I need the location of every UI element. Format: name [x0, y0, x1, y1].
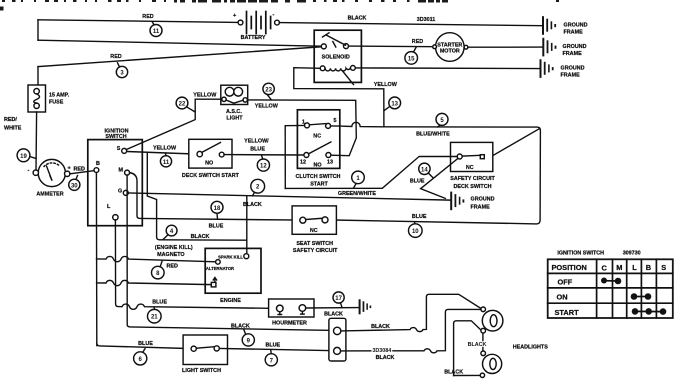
svg-text:NO: NO — [313, 163, 321, 169]
svg-text:RED: RED — [110, 54, 121, 60]
wire RED 3 (fuse to solenoid) — [38, 47, 321, 86]
svg-text:HOURMETER: HOURMETER — [272, 321, 307, 327]
svg-text:A.S.C.: A.S.C. — [226, 109, 242, 115]
svg-text:BLUE: BLUE — [152, 300, 167, 306]
svg-text:11: 11 — [153, 29, 160, 35]
svg-text:ENGINE: ENGINE — [220, 298, 241, 304]
svg-text:BLUE: BLUE — [209, 224, 224, 230]
svg-text:BLUE: BLUE — [412, 214, 427, 220]
ignition switch table — [548, 250, 673, 318]
svg-text:YELLOW/: YELLOW/ — [244, 139, 269, 145]
svg-text:-: - — [273, 12, 275, 18]
wire BLUE 6 to light switch — [97, 341, 191, 349]
svg-text:S: S — [117, 146, 121, 152]
ground frame (battery) — [542, 16, 588, 35]
clutch terminal 13 — [326, 153, 333, 166]
circled 15 — [405, 48, 418, 65]
wire light switch to connector, BLUE 7 — [219, 342, 333, 350]
svg-text:WHITE: WHITE — [4, 126, 22, 132]
svg-text:RED: RED — [412, 39, 423, 45]
ground frame (safety circuit) — [450, 192, 494, 211]
svg-text:BLACK: BLACK — [348, 16, 367, 22]
svg-text:15 AMP.: 15 AMP. — [49, 93, 70, 99]
svg-text:17: 17 — [335, 296, 342, 302]
svg-text:M: M — [616, 263, 622, 272]
wire starter to ground frame — [468, 46, 542, 48]
wire ignition M branch to seat switch — [130, 173, 300, 221]
deck switch (NO) — [182, 139, 240, 179]
light switch — [182, 335, 227, 374]
svg-text:BLACK: BLACK — [376, 355, 395, 361]
svg-text:SEAT SWITCH: SEAT SWITCH — [296, 241, 333, 247]
svg-text:YELLOW: YELLOW — [153, 146, 177, 152]
svg-text:BLACK: BLACK — [468, 342, 487, 348]
svg-text:GROUND: GROUND — [563, 44, 587, 50]
svg-text:SAFETY CIRCUIT: SAFETY CIRCUIT — [293, 248, 338, 254]
wire solenoid coil to clutch junction, YELLOW 13 — [294, 68, 398, 127]
wire solenoid coil to ground frame — [355, 67, 539, 70]
circled 23 — [263, 83, 274, 100]
wire fuse to ammeter — [35, 112, 38, 170]
svg-text:SWITCH: SWITCH — [105, 134, 126, 140]
circled 4 — [163, 225, 177, 239]
wire alternator RED 8 — [97, 256, 216, 269]
node: junction riser x=285 (deck/clutch1/green-white) — [284, 126, 286, 189]
svg-text:FRAME: FRAME — [561, 73, 581, 79]
svg-text:NO: NO — [205, 161, 213, 167]
svg-text:BLUE/WHITE: BLUE/WHITE — [416, 132, 450, 138]
svg-text:NC: NC — [313, 133, 321, 139]
svg-text:BLACK: BLACK — [231, 323, 250, 329]
svg-text:RED/: RED/ — [4, 117, 17, 123]
svg-text:NC: NC — [310, 228, 318, 234]
svg-text:SPARK KILL: SPARK KILL — [218, 255, 243, 260]
svg-text:13: 13 — [327, 160, 333, 166]
label HEADLIGHTS — [513, 344, 548, 350]
svg-text:309730: 309730 — [623, 251, 641, 257]
circled 14 — [419, 163, 433, 178]
ignition terminal L — [107, 204, 118, 220]
svg-text:B: B — [96, 161, 100, 167]
headlight lamp upper — [481, 307, 503, 333]
wire BLUE 14 to ground — [410, 158, 458, 198]
svg-text:G: G — [118, 189, 122, 195]
svg-text:15: 15 — [408, 56, 415, 62]
svg-text:FRAME: FRAME — [563, 51, 583, 57]
svg-text:ALTERNATOR: ALTERNATOR — [206, 266, 234, 271]
wire GREEN/WHITE 1 — [285, 156, 457, 197]
wire: battery positive feed (top loop) — [38, 20, 238, 40]
svg-text:GROUND: GROUND — [564, 23, 588, 29]
svg-text:YELLOW: YELLOW — [374, 82, 398, 88]
clutch blades — [309, 124, 331, 154]
svg-text:BLACK: BLACK — [324, 312, 343, 318]
svg-text:BATTERY: BATTERY — [241, 35, 266, 41]
ignition terminal S — [117, 146, 127, 153]
svg-text:21: 21 — [151, 315, 158, 321]
svg-text:3D3084: 3D3084 — [372, 348, 391, 354]
svg-text:LIGHT: LIGHT — [226, 115, 243, 121]
wire ASC to clutch 13 (via vertical) — [247, 100, 356, 156]
clutch switch box — [296, 110, 341, 188]
svg-text:11: 11 — [163, 160, 170, 166]
svg-text:START: START — [555, 308, 580, 317]
svg-text:L: L — [632, 263, 637, 272]
svg-text:GREEN/WHITE: GREEN/WHITE — [338, 191, 376, 197]
wire between lamps, BLACK — [444, 333, 486, 376]
wire S to deck switch, YELLOW 11 — [127, 146, 197, 155]
ASC light — [221, 85, 248, 121]
wire G drop to spark kill — [246, 197, 248, 254]
wire S to ASC (diagonal) — [126, 93, 222, 150]
label BLUE 10 — [412, 214, 427, 220]
ground frame (solenoid) — [540, 59, 585, 78]
svg-text:FRAME: FRAME — [471, 205, 491, 211]
wire ignition L to hourmeter, BLUE 21 — [115, 220, 276, 309]
wire clutch 5 to corner, BLUE/WHITE 5 — [328, 122, 541, 224]
svg-text:FUSE: FUSE — [49, 100, 64, 106]
svg-text:10: 10 — [412, 229, 419, 235]
svg-text:CLUTCH SWITCH: CLUTCH SWITCH — [296, 174, 341, 180]
circled 8 — [152, 261, 165, 279]
svg-text:14: 14 — [421, 167, 428, 173]
ammeter M1 — [28, 159, 85, 197]
connector block — [329, 318, 346, 361]
ignition terminal B — [94, 161, 100, 173]
svg-text:22: 22 — [179, 102, 186, 108]
fuse F1 15 AMP — [28, 85, 70, 112]
wire clutch 1 to junction — [285, 124, 304, 126]
circled 11 — [150, 22, 162, 36]
ground frame (hourmeter) — [359, 299, 372, 314]
svg-text:RED: RED — [167, 264, 178, 270]
svg-text:YELLOW: YELLOW — [255, 104, 279, 110]
circled 5 — [436, 113, 448, 127]
svg-text:BLACK: BLACK — [243, 202, 262, 208]
svg-text:BLACK: BLACK — [191, 234, 210, 240]
wire solenoid to starter, RED 15 — [349, 39, 435, 47]
circled 19 — [17, 149, 36, 162]
wire ignition M down to light circuit BLACK 9 — [127, 175, 333, 330]
wire connector lower to headlight, 3D3084 BLACK — [341, 309, 481, 361]
svg-text:12: 12 — [300, 160, 306, 166]
circled 21 — [148, 308, 162, 324]
clutch terminal 12 — [300, 153, 309, 166]
clutch terminal 1 — [302, 120, 310, 128]
svg-text:3D3011: 3D3011 — [417, 17, 436, 23]
circled 6 — [134, 349, 147, 365]
svg-text:START: START — [310, 181, 328, 187]
svg-text:BLUE: BLUE — [250, 147, 265, 153]
wire magneto kill from S wire — [147, 153, 247, 241]
safety circuit deck switch box — [450, 142, 495, 189]
ignition switch box — [88, 129, 143, 226]
circled 10 — [409, 222, 423, 237]
wire deck to clutch 12, YELLOW/BLUE 12 — [224, 139, 304, 156]
svg-text:GROUND: GROUND — [471, 197, 495, 203]
starter motor M2 — [433, 33, 468, 62]
circled 11b — [160, 154, 171, 167]
ignition terminal M — [119, 168, 130, 176]
svg-text:B: B — [646, 263, 651, 272]
label ENGINE KILL MAGNETO — [155, 245, 193, 258]
circled 9 — [242, 329, 254, 346]
circled 1 — [352, 171, 365, 188]
headlight return staircase — [454, 321, 482, 376]
wire engine lower terminal — [97, 280, 212, 285]
circled 18 — [209, 201, 224, 229]
svg-text:BLUE: BLUE — [265, 342, 280, 348]
cropped text specks along top edge — [0, 0, 559, 11]
circled 17 — [333, 292, 344, 308]
circled 3 — [116, 63, 127, 78]
svg-text:BLACK: BLACK — [371, 324, 390, 330]
svg-text:12: 12 — [260, 164, 267, 170]
svg-text:S: S — [661, 263, 666, 272]
ignition terminal G — [118, 189, 128, 196]
svg-text:BLUE: BLUE — [410, 178, 425, 184]
svg-text:DECK SWITCH START: DECK SWITCH START — [182, 173, 240, 179]
engine box — [205, 248, 261, 304]
hourmeter — [269, 299, 314, 327]
svg-text:M: M — [119, 168, 124, 174]
svg-text:MOTOR: MOTOR — [440, 49, 460, 55]
svg-text:MAGNETO: MAGNETO — [157, 252, 184, 258]
circled 22 — [176, 97, 195, 112]
svg-text:30: 30 — [71, 183, 78, 189]
wire hourmeter to ground, BLACK 17 — [306, 308, 359, 318]
wire: battery negative to ground frame, BLACK 3D3011 — [279, 16, 542, 26]
svg-text:LIGHT SWITCH: LIGHT SWITCH — [182, 368, 221, 374]
circled 7 — [265, 350, 277, 366]
svg-text:(ENGINE KILL): (ENGINE KILL) — [155, 245, 193, 251]
svg-text:5: 5 — [334, 118, 337, 124]
svg-text:-: - — [28, 168, 30, 174]
wire ammeter to ignition B — [70, 171, 94, 174]
svg-text:POSITION: POSITION — [552, 263, 587, 272]
seat switch safety circuit box — [292, 206, 338, 254]
svg-text:19: 19 — [20, 154, 27, 160]
clutch terminal 5 — [326, 118, 337, 128]
svg-text:23: 23 — [265, 87, 272, 93]
svg-text:RED: RED — [142, 14, 153, 20]
wire connector upper to headlight, BLACK — [341, 294, 481, 331]
label RED wire 11 — [142, 14, 153, 20]
svg-text:SOLENOID: SOLENOID — [322, 55, 350, 61]
wire corner diagonal to safety deck switch — [484, 128, 539, 156]
svg-text:FRAME: FRAME — [564, 30, 584, 36]
ground frame (starter) — [542, 38, 586, 57]
svg-text:BLACK: BLACK — [444, 369, 463, 375]
svg-text:SAFETY CIRCUIT: SAFETY CIRCUIT — [450, 176, 495, 182]
svg-text:DECK SWITCH: DECK SWITCH — [453, 184, 491, 190]
svg-text:YELLOW: YELLOW — [193, 93, 217, 99]
svg-text:13: 13 — [391, 101, 398, 107]
solenoid K1 — [314, 30, 361, 84]
svg-text:BLUE: BLUE — [138, 341, 153, 347]
svg-text:AMMETER: AMMETER — [36, 192, 63, 198]
battery BT1 — [233, 12, 279, 42]
wire B feed down (left riser) — [95, 173, 97, 346]
svg-text:OFF: OFF — [558, 278, 573, 287]
svg-text:IGNITION SWITCH: IGNITION SWITCH — [557, 250, 604, 256]
svg-text:HEADLIGHTS: HEADLIGHTS — [513, 344, 548, 350]
svg-text:18: 18 — [214, 206, 221, 212]
svg-text:ON: ON — [557, 293, 568, 302]
svg-text:C: C — [602, 263, 608, 272]
headlight lamp lower — [480, 351, 502, 377]
circled 2 — [251, 179, 265, 196]
wire: battery loop to solenoid (upper) — [38, 40, 321, 46]
label RED/WHITE — [4, 117, 22, 132]
circled 12 — [257, 155, 269, 171]
circled 30 — [69, 176, 80, 191]
svg-text:GROUND: GROUND — [561, 66, 585, 72]
wire ignition G to ground, BLACK 2 — [128, 193, 450, 208]
circled 13 — [384, 97, 400, 111]
svg-text:NC: NC — [466, 165, 474, 171]
